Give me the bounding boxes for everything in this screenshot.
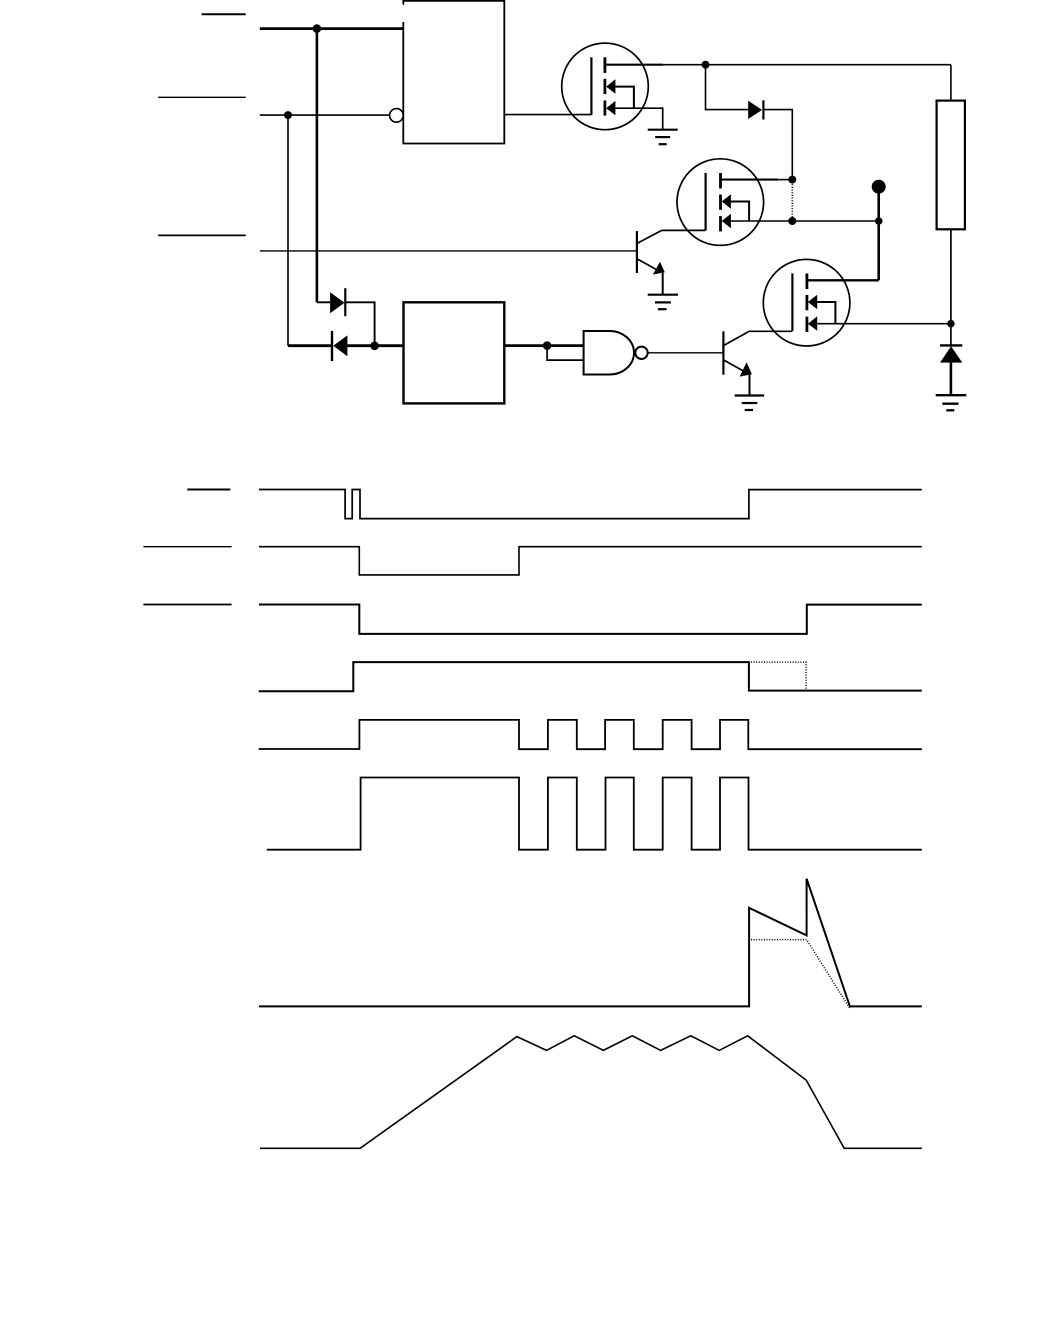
NAND gate U3	[584, 331, 648, 375]
ground for Q1 source	[648, 130, 678, 145]
node junction diodes to U2	[370, 342, 379, 351]
wire node A down to Q3 drain	[807, 279, 879, 281]
ground for Q4 emitter	[648, 295, 678, 310]
transistor Q5	[723, 331, 752, 395]
wire input 2 to U1 bubble	[260, 114, 390, 116]
wire U1 output to Q1 gate	[504, 114, 591, 116]
node junction at D3 takeoff	[702, 61, 710, 69]
wire Q3 source to R1 bottom node	[817, 323, 951, 325]
dotted continuation row 7	[751, 940, 850, 1009]
wire Q4 collector to Q2 gate	[662, 229, 706, 231]
MOSFET Q3	[763, 259, 850, 346]
waveform row 1 trace	[259, 490, 922, 519]
dotted continuation row 4	[751, 662, 806, 691]
wire Q2 source junction to node A	[792, 220, 878, 222]
node junction at NAND input	[543, 341, 552, 350]
wire Q5 collector to Q3 gate	[749, 330, 793, 332]
waveform row 8 trace	[260, 1036, 922, 1149]
wire U3 output to Q5 base	[648, 352, 724, 354]
dotted link Q2 drain to source	[791, 184, 793, 217]
wire D3 cathode down to Q2 drain node	[763, 110, 792, 180]
wire junction to NAND lower input	[547, 346, 584, 361]
wire D1 cathode to D2 output node	[345, 302, 374, 345]
ground for D4 anode	[936, 395, 967, 410]
wire Q2 drain lead	[721, 179, 779, 181]
MOSFET Q1	[562, 43, 649, 130]
diode D4	[940, 345, 962, 395]
resistor R1	[937, 65, 965, 346]
BJT Q4 base wire	[260, 250, 637, 252]
inverting input bubble of U1	[390, 109, 404, 123]
wire input 1 to U1	[260, 27, 404, 30]
label stub line input 1	[202, 13, 246, 15]
node A terminal dot	[872, 180, 886, 194]
block U2	[404, 302, 505, 403]
node junction Q2 drain	[788, 176, 796, 184]
wire vertical from input-2 junction down to D2	[287, 115, 289, 346]
MOSFET Q2	[677, 159, 764, 246]
wire Q1 drain to resistor R1	[605, 64, 663, 66]
node junction Q2 source	[788, 217, 796, 225]
transistor Q4	[637, 230, 665, 294]
label stub line row 1	[187, 489, 230, 491]
wire junction down to D3 anode	[706, 65, 749, 110]
waveform row 7 trace	[259, 879, 922, 1007]
wire Q2 source lead	[731, 220, 792, 222]
wire Q1 source to ground	[615, 108, 662, 130]
wire vertical from input-1 junction down to D1	[316, 29, 319, 303]
label stub line input 2	[158, 96, 246, 98]
node junction on node-A vertical	[875, 217, 883, 225]
waveform row 6 trace	[267, 778, 922, 850]
node junction on input-1 wire	[313, 24, 322, 33]
waveform row 4 trace	[259, 662, 922, 691]
waveform row 2 trace	[259, 547, 922, 575]
ground for Q5 emitter	[735, 396, 765, 411]
label stub line row 2	[143, 546, 231, 548]
node junction R1 bottom	[947, 320, 955, 328]
node junction on input-2 wire	[284, 111, 292, 119]
block U1	[403, 1, 504, 144]
waveform row 5 trace	[259, 720, 922, 749]
wire node A vertical	[877, 187, 880, 281]
label stub line row 3	[143, 604, 231, 606]
label stub line input 3	[158, 234, 246, 236]
waveform row 3 trace	[259, 605, 922, 634]
diode D2	[288, 331, 404, 361]
diode D3	[748, 100, 763, 119]
wire U2 output to NAND input	[504, 344, 583, 347]
diode D1	[317, 288, 345, 316]
